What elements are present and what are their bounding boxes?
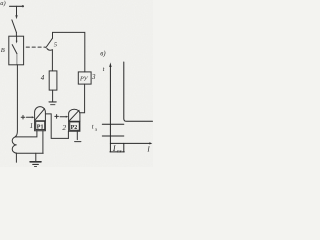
svg-text:в): в) [100, 50, 106, 58]
wire relay1 right tap [45, 114, 68, 138]
minus mark [75, 141, 81, 143]
wire stem from busbar [16, 6, 18, 16]
wire below box V [15, 65, 17, 137]
ground [35, 153, 37, 161]
wire below box 4 [52, 90, 54, 101]
y axis t [109, 65, 111, 143]
Icz bracket [109, 143, 111, 152]
svg-text:4: 4 [41, 74, 45, 82]
switch 5 hook [47, 49, 52, 51]
relay 2 divider [69, 120, 80, 122]
relay 2 inner box P2 [70, 122, 80, 130]
breaker inner blade [12, 45, 17, 54]
resistor box 4 [49, 71, 57, 90]
svg-text:Р2: Р2 [71, 125, 78, 131]
arrowhead down [15, 15, 17, 19]
relay RU box [78, 72, 91, 84]
breaker inner stem [16, 36, 18, 41]
switch 5 blade [46, 38, 53, 47]
relay 1 diagonal [35, 109, 44, 120]
svg-text:Р1: Р1 [37, 124, 44, 130]
wire into box B [15, 32, 17, 36]
svg-text:РУ: РУ [79, 76, 88, 83]
switch 5 lower wire [51, 50, 53, 71]
relay 1 body [35, 107, 46, 131]
svg-text:t: t [103, 66, 105, 73]
svg-text:а): а) [0, 0, 5, 7]
plus mark 2 [55, 115, 59, 117]
arrow into relay 1 [26, 116, 32, 118]
characteristic curve [124, 62, 153, 121]
breaker box V rect [9, 36, 24, 65]
relay 1 divider [35, 120, 46, 122]
svg-text:2: 2 [62, 123, 66, 132]
x axis I [110, 142, 149, 144]
graph axes and curve [102, 62, 152, 152]
relay 1 inner box P1 [36, 121, 45, 129]
svg-text:В: В [1, 47, 5, 54]
trip coil [12, 137, 16, 153]
wire P1 right lead down [42, 131, 44, 154]
busbar terminal [10, 5, 24, 7]
switch 5 upper wire [52, 32, 54, 38]
paper noise [0, 0, 153, 167]
wire RU up and across to switch 5 [53, 32, 85, 72]
wire relay2 right lead [76, 131, 78, 139]
disconnector blade upper [12, 20, 17, 33]
svg-text:сз: сз [117, 148, 122, 154]
busbar end dot [22, 5, 24, 7]
ground under box 4 [49, 101, 56, 103]
wire coil top to relay contact P1 [17, 131, 37, 137]
svg-text:t: t [92, 124, 94, 131]
breaker inner lower stub [16, 54, 18, 65]
svg-text:3: 3 [91, 73, 96, 81]
plus mark 1 [21, 116, 25, 118]
svg-text:з: з [94, 127, 97, 133]
wire relay2 to relay RU [80, 84, 85, 113]
breaker inner arrowhead [16, 41, 18, 44]
relay 2 diagonal [69, 110, 79, 120]
mechanical link dashes [26, 46, 45, 48]
relay 2 body [69, 109, 80, 131]
wire relay2 left lead [67, 131, 69, 138]
stub below coil [15, 153, 17, 162]
tick level 1 [102, 123, 124, 125]
svg-text:I: I [112, 144, 116, 153]
svg-text:1: 1 [30, 122, 33, 130]
bottom bus wire [17, 152, 44, 154]
tick level 2 [102, 135, 124, 137]
arrow into relay 2 [60, 116, 66, 118]
